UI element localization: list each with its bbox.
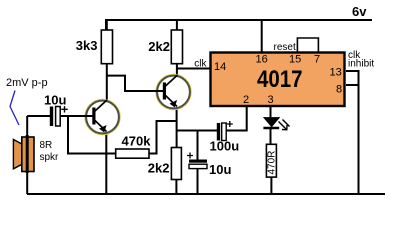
svg-text:2: 2 <box>243 94 249 106</box>
svg-text:13: 13 <box>330 67 342 79</box>
svg-text:100u: 100u <box>210 139 240 154</box>
wire: clk inhibit pins 13+8 to 0v rail <box>346 71 359 194</box>
wire: C2 10u to 0v rail <box>197 168 199 194</box>
svg-text:inhibit: inhibit <box>348 59 374 70</box>
svg-text:7: 7 <box>314 54 320 66</box>
wire: pin 3 to LED <box>270 106 272 118</box>
resistor R2 2k2 <box>171 30 182 64</box>
svg-text:8: 8 <box>336 84 342 96</box>
wire: 2k2 stub to rail <box>176 20 178 31</box>
resistor R3 470k <box>116 149 149 158</box>
svg-text:reset: reset <box>274 42 296 53</box>
wire: speaker drop to 0v <box>26 116 28 194</box>
wire: input speaker to C1 <box>27 115 50 117</box>
wire: LED to R5 470R <box>270 129 272 144</box>
speaker LS1 <box>13 135 34 173</box>
LED D1 <box>263 118 289 130</box>
svg-text:470R: 470R <box>266 151 277 175</box>
reset link pins 15-7 <box>297 38 318 53</box>
resistor R4 2k2 <box>171 148 181 180</box>
svg-text:10u: 10u <box>209 162 231 177</box>
capacitor C1 10u <box>50 106 68 126</box>
transistor Q2 <box>155 75 191 110</box>
svg-text:4017: 4017 <box>257 66 303 93</box>
wire: Q1 base node down to R3 470k <box>68 116 116 154</box>
wire: R5 470R to 0v rail <box>270 177 272 194</box>
svg-text:2k2: 2k2 <box>148 39 170 54</box>
svg-text:8R: 8R <box>40 140 53 151</box>
wire: R2 2k2 to Q2 collector <box>176 64 178 77</box>
svg-text:3: 3 <box>268 94 274 106</box>
wire: C1 to Q1 base <box>60 115 93 117</box>
wire: Q2 emitter down to R4 <box>176 108 178 148</box>
wire: Q1 emitter to 0v rail <box>105 133 107 194</box>
wire: 6v supply rail <box>106 20 372 30</box>
svg-text:16: 16 <box>256 54 268 66</box>
svg-text:6v: 6v <box>352 4 367 19</box>
wire: R1 3k3 to Q1 collector <box>106 64 108 102</box>
wire: R3 470k to Q2 emitter <box>149 121 176 154</box>
IC U1 4017 <box>211 53 345 107</box>
svg-text:10u: 10u <box>44 93 66 108</box>
svg-text:3k3: 3k3 <box>76 38 98 53</box>
svg-text:clk: clk <box>194 59 207 70</box>
wire: 0v bottom rail <box>27 193 385 195</box>
svg-text:14: 14 <box>214 61 226 73</box>
svg-text:470k: 470k <box>122 134 152 149</box>
wire: emitter node to C3 100u <box>177 130 217 132</box>
wire: C2 10u top <box>197 131 199 160</box>
capacitor C3 100u <box>217 121 233 141</box>
wire: clk Q2 collector to pin14 <box>177 68 210 70</box>
svg-text:2k2: 2k2 <box>148 161 170 176</box>
wire: R4 2k2 to 0v rail <box>175 180 177 195</box>
capacitor C2 10u electrolytic <box>187 153 207 169</box>
resistor R1 3k3 <box>101 30 112 64</box>
wire: C3 100u to pin 2 <box>226 106 247 131</box>
svg-text:2mV p-p: 2mV p-p <box>6 77 48 89</box>
transistor Q1 <box>84 100 120 135</box>
pointer line for 2mV p-p <box>10 91 19 126</box>
wire: Q1 collector to Q2 base <box>107 76 162 91</box>
svg-text:15: 15 <box>289 54 301 66</box>
resistor R5 470R <box>266 144 277 177</box>
wire: 3k3 stub to rail <box>106 20 108 31</box>
svg-text:spkr: spkr <box>40 152 60 163</box>
wire: pin16 stub to rail <box>261 20 263 53</box>
